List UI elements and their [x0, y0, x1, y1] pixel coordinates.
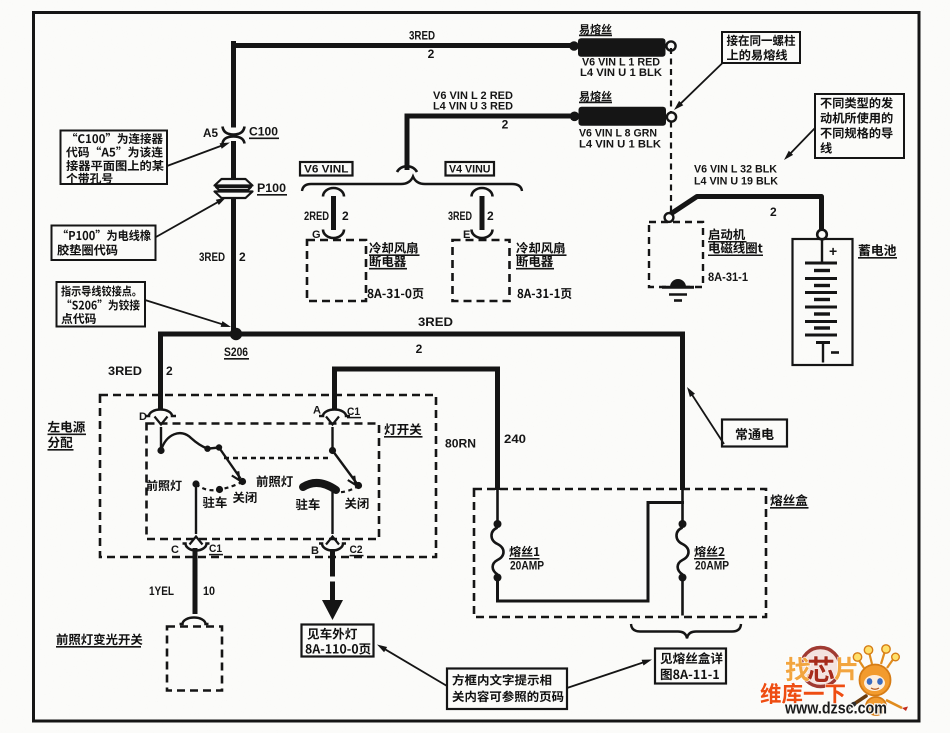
wire bus right corner down to fuse 2: [680, 332, 685, 491]
callout arrow to fuse-detail box: [567, 661, 646, 688]
svg-text:C2: C2: [350, 544, 363, 556]
fuse 2 bottom lead: [681, 580, 684, 616]
svg-text:2: 2: [239, 250, 246, 264]
junction dot fusible link 1 left: [569, 41, 579, 51]
middle dashed line in switch: [224, 457, 332, 459]
box V4 VINU: [446, 162, 495, 176]
right wiper arm: [333, 451, 357, 484]
big solid arrow to exterior lights: [322, 600, 343, 620]
wire solenoid to battery: [669, 197, 822, 232]
wire branch to fusible link 2: [407, 116, 574, 170]
fuse 1 bottom route to fuse 2: [498, 503, 685, 602]
svg-text:L4 VIN U 19 BLK: L4 VIN U 19 BLK: [694, 176, 778, 188]
wire C to dimmer switch: [193, 548, 198, 614]
battery plates: [805, 262, 837, 265]
watermark xin: [808, 656, 834, 682]
label battery minus: [831, 351, 839, 354]
label cooling fan right: [516, 242, 564, 254]
box V6 VINL: [300, 162, 353, 176]
battery bottom lead: [816, 341, 830, 344]
watermark mascot: [858, 659, 864, 668]
right contact off dot: [355, 482, 362, 489]
left contact off dot: [239, 478, 246, 485]
svg-text:2: 2: [416, 342, 423, 356]
connector B cup: [319, 544, 346, 551]
label xudianchi: [859, 244, 896, 256]
label rongsi 2: [694, 546, 724, 557]
callout arrow C100: [167, 145, 224, 166]
terminal circle fusible link 1 right: [666, 41, 675, 50]
svg-text:C1: C1: [347, 406, 360, 418]
left curve dot 2: [216, 444, 222, 450]
svg-text:V6 VIN L 32 BLK: V6 VIN L 32 BLK: [694, 164, 777, 176]
svg-text:8A-31-1: 8A-31-1: [708, 270, 748, 284]
right branch wire: [480, 196, 485, 230]
callout arrow P100: [156, 200, 221, 237]
watermark seal circle: [801, 648, 840, 687]
svg-text:V4 VINU: V4 VINU: [449, 164, 491, 176]
callout arrow engine-wire-gauge: [788, 128, 815, 156]
connector dome dimmer: [180, 618, 209, 625]
brace over cooling branches: [302, 177, 522, 192]
callout box page-reference: [447, 669, 567, 710]
svg-text:D: D: [139, 411, 147, 423]
cooling fan breaker box right: [453, 240, 510, 301]
label headlamp dimmer switch: [57, 633, 143, 645]
svg-text:A: A: [313, 405, 321, 417]
svg-text:20AMP: 20AMP: [510, 559, 544, 573]
terminal circle solenoid: [665, 213, 674, 222]
left branch cup: [323, 230, 344, 239]
label qianzhaodeng right: [257, 475, 293, 487]
right wiper arrow up: [331, 427, 333, 450]
svg-text:3RED: 3RED: [418, 315, 453, 329]
battery top lead: [821, 240, 823, 263]
cooling fan breaker box left: [307, 240, 366, 301]
connector A dome: [319, 410, 350, 417]
label zhuche right: [296, 498, 320, 510]
fuse 1 top lead: [496, 489, 499, 521]
wire S206 horizontal bus: [158, 332, 685, 337]
svg-text:2: 2: [502, 118, 509, 132]
svg-text:2RED: 2RED: [304, 209, 329, 223]
callout arrow same-stud: [678, 63, 723, 106]
right output wire down: [331, 492, 333, 534]
left contact parking dot: [216, 486, 223, 493]
battery box: [793, 239, 853, 365]
label qianzhaodeng left: [147, 480, 182, 491]
watermark zhao: [786, 657, 811, 681]
label rongsi 1: [509, 546, 539, 557]
svg-text:3RED: 3RED: [199, 250, 225, 264]
left wiper curve: [161, 433, 208, 450]
fuse 2 top dot: [679, 520, 687, 528]
label 8A-31-1 page right: [518, 288, 572, 299]
svg-text:240: 240: [504, 432, 526, 446]
callout box same-stud: [722, 32, 800, 63]
fuse box dashed outline: [474, 489, 766, 617]
svg-text:C1: C1: [209, 543, 222, 555]
box see exterior lights: [302, 625, 374, 657]
right branch E connector dome: [472, 188, 493, 197]
right branch cup: [472, 230, 493, 239]
dimmer switch dashed box: [167, 627, 222, 691]
svg-text:C100: C100: [249, 125, 278, 139]
svg-text:3RED: 3RED: [108, 364, 142, 378]
svg-text:S206: S206: [224, 345, 248, 359]
crowfoot at wire end above brace: [397, 166, 417, 172]
wire B down segment: [330, 549, 335, 577]
grommet P100 symbol: [215, 179, 253, 186]
box see fuse box detail: [655, 649, 726, 684]
wire B arrow segment: [330, 582, 335, 602]
svg-text:L4 VIN U 3 RED: L4 VIN U 3 RED: [433, 101, 513, 113]
svg-text:+: +: [829, 243, 837, 259]
wire bus left corner down to D: [158, 332, 163, 411]
connector C cup: [183, 544, 210, 551]
svg-text:10: 10: [203, 584, 215, 598]
watermark pian: [835, 657, 857, 681]
svg-text:L4 VIN U 1 BLK: L4 VIN U 1 BLK: [579, 139, 661, 151]
junction dot fusible link 2 left: [570, 112, 580, 122]
left branch wire: [331, 196, 336, 230]
callout box C100: [61, 131, 168, 185]
fuse 1 top dot: [494, 520, 502, 528]
fusible link 1 body: [578, 38, 666, 57]
label dengkaiguan: [384, 423, 421, 435]
right contacts dashed arc: [338, 486, 359, 493]
label cooling fan left: [369, 242, 417, 254]
svg-text:2: 2: [428, 47, 435, 61]
label qidongji: [708, 228, 745, 240]
inner dashed box light switch: [147, 424, 380, 540]
brace under fuse box: [631, 624, 741, 639]
left wiper arm to off: [219, 448, 241, 479]
label 8A-31-0 page left: [368, 288, 424, 299]
fuse 1 bottom dot: [494, 574, 502, 582]
svg-text:20AMP: 20AMP: [695, 559, 729, 573]
svg-text:L4 VIN U 1 BLK: L4 VIN U 1 BLK: [580, 67, 662, 79]
starter solenoid dashed box: [649, 222, 703, 287]
svg-text:2: 2: [166, 364, 173, 378]
connector C100 upper cup: [223, 127, 245, 135]
fuse 1 element: [492, 528, 504, 575]
wire main feed vertical (3RED) top segment: [231, 41, 236, 128]
svg-text:1YEL: 1YEL: [149, 584, 174, 598]
terminal circle fusible link 2 right: [667, 112, 676, 121]
right pivot dot: [329, 447, 336, 454]
left output wire down: [195, 487, 197, 534]
battery terminal circle: [817, 230, 827, 240]
fuse 2 element: [677, 528, 689, 575]
svg-text:www.dzsc.com: www.dzsc.com: [784, 700, 887, 718]
left contact headlamp dot: [192, 480, 199, 487]
left contacts dashed arc: [196, 482, 243, 491]
connector D dome: [145, 410, 176, 417]
callout arrow S206: [145, 300, 225, 325]
label zuodianyuan: [48, 421, 85, 433]
callout arrow hot-at-all-times: [690, 392, 724, 444]
callout box S206: [57, 282, 146, 327]
watermark weikuyixia: [761, 683, 845, 704]
label guanbi right: [345, 498, 369, 510]
wire P100 to S206: [231, 197, 236, 334]
left pivot dot: [157, 447, 164, 454]
connector C100 lower dome: [223, 137, 245, 144]
svg-text:B: B: [311, 545, 319, 557]
svg-text:C: C: [171, 544, 179, 556]
label yirongsi 2: [579, 91, 611, 102]
dashed stud line: [670, 48, 672, 213]
callout arrow to exterior-lights box: [382, 648, 447, 686]
wire top horizontal to fusible link 1: [231, 43, 574, 48]
svg-text:A5: A5: [203, 126, 218, 140]
right parking blob: [303, 483, 336, 490]
svg-text:80RN: 80RN: [445, 437, 476, 451]
svg-text:2: 2: [487, 209, 494, 223]
fusible link 2 body: [579, 107, 667, 126]
svg-text:2: 2: [342, 209, 349, 223]
svg-text:3RED: 3RED: [448, 209, 472, 223]
left wiper arrow up: [160, 427, 162, 450]
svg-text:P100: P100: [257, 181, 286, 195]
left branch G connector dome: [323, 188, 344, 197]
callout box hot-at-all-times: [722, 420, 787, 447]
svg-text:2: 2: [770, 205, 777, 219]
svg-text:3RED: 3RED: [409, 29, 435, 43]
fuse 2 bottom dot: [679, 574, 687, 582]
callout box engine-wire-gauge: [815, 94, 904, 158]
label guanbi left: [233, 492, 257, 504]
label rongsihe: [770, 494, 807, 506]
wire between C100 and P100: [231, 141, 236, 179]
outer dashed box left power distribution: [100, 395, 436, 557]
svg-text:V6 VINL: V6 VINL: [304, 164, 349, 176]
left curve dot 1: [204, 446, 210, 452]
label yirongsi 1: [579, 24, 611, 35]
label zhuche left: [203, 496, 227, 508]
ground symbol solenoid: [670, 279, 686, 287]
wire A up-over to fuse 1: [335, 369, 498, 490]
callout box P100: [52, 226, 156, 261]
junction dot S206: [230, 328, 242, 340]
